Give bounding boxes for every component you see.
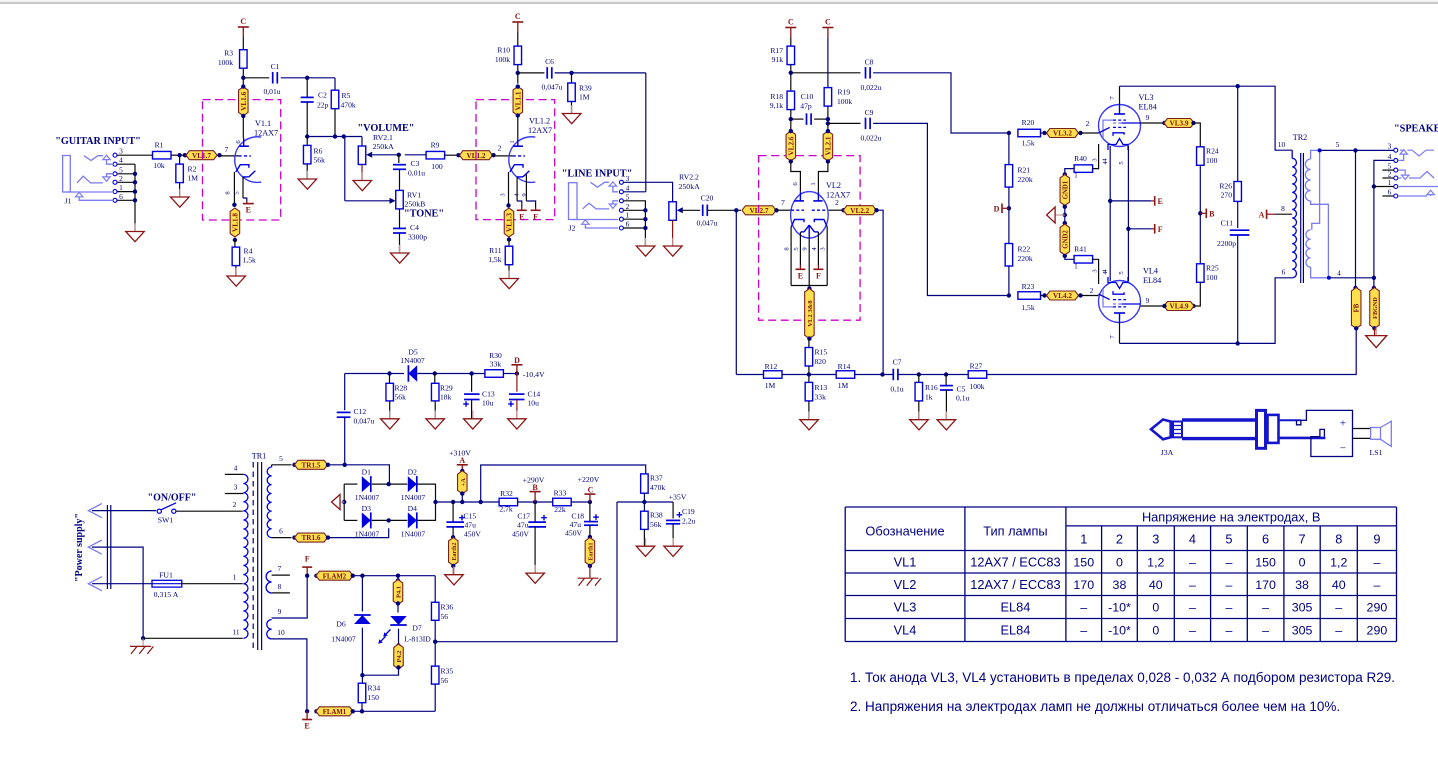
svg-text:7: 7 <box>1298 532 1305 547</box>
TR2 core <box>1300 153 1302 283</box>
svg-text:6: 6 <box>119 192 123 201</box>
svg-text:0,022u: 0,022u <box>861 83 882 92</box>
resistor R14 <box>804 374 836 376</box>
svg-text:10: 10 <box>277 628 285 637</box>
resistor R36 <box>434 576 436 603</box>
svg-text:6: 6 <box>1388 188 1392 197</box>
svg-text:R35: R35 <box>441 667 454 676</box>
ground of C17 <box>534 527 536 573</box>
wire P4.2 to R34 node <box>362 668 398 676</box>
resistor R17 <box>790 37 792 46</box>
svg-text:100: 100 <box>1206 273 1218 282</box>
svg-text:B: B <box>1209 209 1215 218</box>
svg-text:−: − <box>1340 443 1346 455</box>
svg-text:0,022u: 0,022u <box>861 134 882 143</box>
heater wires to E F of VL1.2 <box>516 177 518 201</box>
svg-text:–: – <box>1189 601 1196 615</box>
wire VL2.7 node down to R12 <box>735 210 737 374</box>
connector J3A second collar <box>1268 415 1279 443</box>
net label FLAM1 <box>305 709 309 713</box>
potentiometer RV1 TONE <box>396 190 404 209</box>
svg-text:TR2: TR2 <box>1293 133 1308 142</box>
power E below V1.1 <box>246 202 248 204</box>
svg-text:38: 38 <box>1295 578 1309 592</box>
svg-text:1N4007: 1N4007 <box>401 530 426 539</box>
svg-text:R5: R5 <box>342 91 351 100</box>
resistor R4 <box>234 240 236 247</box>
wires labels to VL2 anodes <box>791 162 801 192</box>
svg-text:1M: 1M <box>838 381 849 390</box>
svg-text:F: F <box>816 271 821 280</box>
J1 pin circles and numbers <box>113 153 117 157</box>
svg-text:7: 7 <box>225 145 229 154</box>
svg-text:0: 0 <box>1152 624 1159 638</box>
wire bridge AC1 from TR1.5 node <box>345 465 390 484</box>
svg-text:TR1.5: TR1.5 <box>302 461 321 469</box>
svg-text:0: 0 <box>1116 555 1123 569</box>
wire C7 to R16 C5 R27 <box>898 374 968 376</box>
svg-text:VL1.6: VL1.6 <box>240 91 248 110</box>
ground of R29 <box>434 401 436 419</box>
svg-text:1,5k: 1,5k <box>243 256 256 265</box>
svg-text:8: 8 <box>225 191 232 195</box>
svg-text:47u: 47u <box>465 521 477 530</box>
svg-text:FB: FB <box>1354 303 1361 312</box>
magenta box around VL2 <box>759 156 861 321</box>
wire R40 right to VL3 pin3 <box>1093 144 1099 169</box>
resistor R21 <box>1008 133 1010 165</box>
svg-text:450V: 450V <box>512 530 529 539</box>
wire C12 top row <box>345 373 390 375</box>
net label TR1.6 <box>295 533 328 542</box>
svg-text:VL1: VL1 <box>894 554 917 569</box>
page arrow at GND node <box>1064 207 1066 223</box>
svg-text:VL1.1: VL1.1 <box>514 91 522 110</box>
svg-text:9: 9 <box>278 607 282 616</box>
wire R19 bottom to C9 row <box>827 106 829 131</box>
capacitor C15 electrolytic <box>452 502 454 522</box>
resistor R35 <box>431 666 439 684</box>
resistor R10 <box>517 32 519 46</box>
svg-text:100k: 100k <box>969 382 984 391</box>
svg-text:1: 1 <box>233 573 237 582</box>
svg-text:–: – <box>1373 555 1380 569</box>
+35V node <box>643 493 645 511</box>
TR1 secondary winding 9-10 <box>267 620 272 639</box>
power E at EL84s <box>1110 200 1151 202</box>
net label VL4.2 <box>1041 295 1045 297</box>
resistor R1 <box>153 151 172 159</box>
net label GND1 <box>1060 175 1070 206</box>
svg-text:1,2: 1,2 <box>1147 555 1164 569</box>
connector J2 ring contact <box>583 203 609 209</box>
svg-text:5: 5 <box>626 192 630 201</box>
svg-text:305: 305 <box>1292 601 1313 615</box>
svg-text:VL2: VL2 <box>894 577 917 592</box>
power E below VL2 <box>799 265 801 269</box>
wire tap 11 <box>143 637 243 639</box>
power B <box>1200 212 1206 214</box>
svg-text:12AX7 / ECC83: 12AX7 / ECC83 <box>970 554 1060 569</box>
svg-text:2. Напряжения на электродах ла: 2. Напряжения на электродах ламп не долж… <box>850 699 1340 714</box>
output pin5 pin2 pin6 stubs <box>1382 169 1393 171</box>
svg-text:D7: D7 <box>412 624 421 633</box>
ground of R16 <box>918 401 920 420</box>
wire output pin4 pin1 to FBGND <box>1374 160 1394 288</box>
svg-text:3: 3 <box>626 174 630 183</box>
svg-text:R38: R38 <box>650 511 663 520</box>
svg-text:220k: 220k <box>1018 254 1033 263</box>
svg-text:18k: 18k <box>440 393 452 402</box>
svg-text:A: A <box>459 456 465 465</box>
svg-text:1M: 1M <box>765 381 776 390</box>
svg-text:1,5k: 1,5k <box>1021 139 1034 148</box>
connector J3A contacts <box>1279 419 1301 421</box>
svg-text:33k: 33k <box>490 360 502 369</box>
svg-text:VL2.1: VL2.1 <box>824 136 832 155</box>
net label FLAM2 <box>314 574 318 578</box>
svg-text:–: – <box>1335 601 1342 615</box>
resistor R34 <box>361 675 363 683</box>
svg-text:EL84: EL84 <box>1143 276 1161 285</box>
svg-text:47p: 47p <box>800 102 812 111</box>
TR2 primary winding <box>1291 150 1293 158</box>
svg-text:0,01u: 0,01u <box>408 169 425 178</box>
wire VL4 plate to bottom rail <box>1119 323 1121 344</box>
svg-text:1: 1 <box>626 211 630 220</box>
svg-text:2: 2 <box>498 144 502 153</box>
svg-text:2: 2 <box>835 198 839 207</box>
ground of R2 <box>179 183 181 197</box>
diode D3 <box>344 519 357 521</box>
svg-text:91k: 91k <box>772 55 784 64</box>
resistor R23 <box>1007 293 1011 297</box>
wire VL4.9 to VL4 pin9 <box>1141 305 1165 307</box>
wire mains neutral down to tap 11 <box>92 547 143 638</box>
svg-text:C: C <box>240 17 246 26</box>
svg-text:Обозначение: Обозначение <box>865 524 944 539</box>
svg-text:R3: R3 <box>224 49 233 58</box>
svg-text:3: 3 <box>1092 158 1099 162</box>
svg-text:R18: R18 <box>770 92 783 101</box>
resistor R6 <box>306 137 308 146</box>
svg-text:40: 40 <box>1149 578 1163 592</box>
svg-text:3: 3 <box>1152 532 1159 547</box>
svg-text:3300p: 3300p <box>408 233 427 242</box>
resistor R18 <box>787 91 795 110</box>
svg-text:47u: 47u <box>517 521 529 530</box>
ground of J1 <box>134 229 136 232</box>
capacitor C18 electrolytic <box>589 502 591 521</box>
svg-text:C14: C14 <box>528 390 541 399</box>
speaker LS1 <box>1353 428 1371 430</box>
svg-text:C10: C10 <box>801 92 814 101</box>
svg-text:3: 3 <box>1092 269 1099 273</box>
svg-text:9,1k: 9,1k <box>770 101 783 110</box>
svg-text:56k: 56k <box>650 520 662 529</box>
svg-text:E: E <box>246 206 251 215</box>
wire fuse to TR1 tap 1 <box>182 583 243 585</box>
wire to C13 and R30 <box>435 373 485 375</box>
power E below FLAM1 <box>306 711 308 719</box>
svg-text:3: 3 <box>119 147 123 156</box>
connector J3A big collar <box>1257 410 1266 448</box>
svg-text:–: – <box>1373 578 1380 592</box>
svg-text:FLAM1: FLAM1 <box>323 709 347 716</box>
svg-text:C: C <box>788 18 794 27</box>
svg-text:C7: C7 <box>893 358 902 367</box>
ground of RV2.2 <box>672 220 674 246</box>
ground of C5 <box>945 390 947 412</box>
power D at -10.4V <box>503 373 517 375</box>
svg-text:E: E <box>798 271 803 280</box>
capacitor C11 <box>1230 229 1250 231</box>
svg-text:"Power supply": "Power supply" <box>74 513 85 582</box>
svg-text:100: 100 <box>431 162 443 171</box>
svg-text:40: 40 <box>1332 578 1346 592</box>
svg-text:VL1.2: VL1.2 <box>529 117 550 126</box>
TR2 secondary winding upper <box>1311 150 1320 159</box>
TR1 secondary winding 5-6 <box>271 465 273 467</box>
svg-text:450V: 450V <box>565 529 582 538</box>
svg-text:9: 9 <box>1146 296 1150 305</box>
svg-text:6: 6 <box>279 527 283 536</box>
svg-text:56k: 56k <box>314 156 326 165</box>
output jack tip contact <box>1400 149 1404 151</box>
svg-text:C20: C20 <box>701 194 714 203</box>
svg-text:1k: 1k <box>925 393 933 402</box>
svg-text:5: 5 <box>279 454 283 463</box>
wire mains line to switch <box>92 510 156 512</box>
ground of FBGND <box>1374 328 1376 335</box>
capacitor C9 <box>865 118 867 129</box>
bridge left rail with page arrow <box>343 484 345 520</box>
chassis ground of Earth1 <box>589 566 591 578</box>
svg-text:R15: R15 <box>815 348 828 357</box>
fuse FU1 <box>92 583 152 585</box>
svg-text:VL1.3: VL1.3 <box>506 213 514 232</box>
svg-text:C4: C4 <box>410 223 419 232</box>
svg-text:+: + <box>1340 418 1346 430</box>
svg-text:+A: +A <box>460 478 467 487</box>
capacitor C3 <box>398 155 400 163</box>
svg-text:R6: R6 <box>314 147 323 156</box>
wire A rail to R37 <box>481 465 646 502</box>
VL2 heater wires to E F <box>799 232 801 265</box>
svg-text:D6: D6 <box>336 620 345 629</box>
svg-text:–: – <box>1225 578 1232 592</box>
output jack pin circles and numbers <box>1394 148 1398 152</box>
svg-text:2200p: 2200p <box>1217 239 1236 248</box>
svg-text:12AX7: 12AX7 <box>254 129 278 138</box>
svg-text:11: 11 <box>232 628 239 637</box>
power F below VL1.2 <box>535 208 537 211</box>
wire D2 to output node <box>417 484 435 502</box>
svg-text:1,5k: 1,5k <box>1021 303 1034 312</box>
wire speaker net down to FB <box>1355 150 1357 288</box>
svg-text:-10*: -10* <box>1108 601 1131 615</box>
wire R40 left to GND1 <box>1065 169 1074 175</box>
wire C9 to R23 node <box>873 123 1009 295</box>
svg-text:R36: R36 <box>441 603 454 612</box>
svg-text:C8: C8 <box>865 58 874 67</box>
capacitor C1 <box>272 72 274 84</box>
svg-text:"GUITAR INPUT": "GUITAR INPUT" <box>55 136 141 147</box>
svg-text:305: 305 <box>1292 624 1313 638</box>
svg-text:P4.2: P4.2 <box>396 651 403 663</box>
net label Earth2 <box>451 535 455 539</box>
diode D1 <box>344 483 357 485</box>
ground of R38 <box>643 529 645 546</box>
svg-text:R19: R19 <box>838 88 851 97</box>
resistor R37 <box>641 474 649 493</box>
wire VL3 pin9 to VL3.9 <box>1141 122 1165 124</box>
wire FLAM2 row <box>353 575 435 577</box>
svg-text:Тип лампы: Тип лампы <box>983 524 1047 539</box>
wire TR1.5 to C12 and bridge <box>328 464 345 466</box>
svg-text:+220V: +220V <box>578 475 600 484</box>
capacitor C2 <box>306 78 308 98</box>
svg-text:VL3: VL3 <box>1139 93 1154 102</box>
connector J2 sleeve <box>573 219 618 221</box>
triode VL1.2 12AX7 <box>509 137 535 183</box>
svg-text:VL1.8: VL1.8 <box>231 213 239 232</box>
resistor R13 <box>805 382 813 401</box>
wire R25 to VL4.9 <box>1194 282 1201 306</box>
svg-text:33k: 33k <box>815 393 827 402</box>
wire C1 to C2/R5 node <box>281 77 335 79</box>
svg-text:RV2.2: RV2.2 <box>679 173 699 182</box>
svg-text:EL84: EL84 <box>1000 623 1030 638</box>
heater wire to E <box>242 177 244 198</box>
svg-text:6: 6 <box>626 220 630 229</box>
svg-text:7: 7 <box>781 198 785 207</box>
resistor R12 <box>764 371 783 379</box>
resistor R22 <box>1005 244 1013 267</box>
connector J1 body <box>63 156 71 193</box>
svg-text:LS1: LS1 <box>1370 448 1383 457</box>
diode D4 <box>408 512 417 528</box>
svg-text:1N4007: 1N4007 <box>400 356 425 365</box>
svg-text:VL3: VL3 <box>894 600 917 615</box>
wire J1 pin3 to R1 <box>117 154 153 156</box>
svg-text:RV1: RV1 <box>407 191 421 200</box>
resistor R33 <box>553 498 572 506</box>
svg-text:C: C <box>825 18 831 27</box>
svg-text:–: – <box>1189 555 1196 569</box>
svg-text:0,1u: 0,1u <box>956 394 969 403</box>
TR2 secondary winding lower <box>1306 230 1311 267</box>
svg-text:0,047u: 0,047u <box>354 417 375 426</box>
svg-text:B: B <box>532 483 538 492</box>
wire R1 to VL1.7 <box>171 154 185 156</box>
net label VL2.6 <box>786 131 796 161</box>
ground of C14 <box>516 411 518 419</box>
wire R24 to B node <box>1199 165 1201 263</box>
diode D5 <box>387 371 391 375</box>
svg-text:R12: R12 <box>765 362 778 371</box>
capacitor C19 <box>672 502 674 519</box>
svg-text:D4: D4 <box>408 504 417 513</box>
wire R33 to C node <box>571 501 590 503</box>
svg-text:1: 1 <box>509 140 516 143</box>
svg-text:R9: R9 <box>431 141 440 150</box>
resistor R25 <box>1197 264 1205 283</box>
wire VL3 plate to top rail <box>1119 86 1121 104</box>
svg-text:1: 1 <box>1080 532 1087 547</box>
wiper node to R9 / C3 <box>397 153 401 157</box>
connector J3A barrel <box>1182 418 1256 421</box>
svg-text:4: 4 <box>1388 152 1392 161</box>
net label VL2 3&8 <box>807 286 811 290</box>
connector J1 tip contact <box>84 156 103 161</box>
svg-text:–: – <box>1225 555 1232 569</box>
ground of RV2.1 <box>361 165 363 181</box>
svg-text:4: 4 <box>811 247 818 251</box>
svg-text:D3: D3 <box>362 504 371 513</box>
resistor R2 <box>179 155 181 164</box>
svg-text:150: 150 <box>368 693 380 702</box>
svg-text:F: F <box>1158 225 1163 234</box>
TR1 tap 9 wire to FLAM2 net <box>272 576 308 618</box>
svg-text:VL3.2: VL3.2 <box>1053 130 1072 138</box>
power F below VL2 <box>817 265 819 269</box>
capacitor C12 <box>344 374 346 411</box>
connector J3A collar <box>1173 422 1182 438</box>
connector J2 body <box>569 183 578 220</box>
svg-text:R26: R26 <box>1219 182 1232 191</box>
svg-text:2: 2 <box>1086 119 1090 128</box>
LED arrows of D7 <box>385 630 391 636</box>
output jack sleeve contact <box>1398 186 1438 188</box>
svg-text:A: A <box>1259 211 1265 220</box>
capacitor C4 <box>399 209 401 229</box>
svg-text:6: 6 <box>1262 532 1269 547</box>
svg-text:1M: 1M <box>579 93 590 102</box>
svg-text:R41: R41 <box>1074 245 1087 254</box>
svg-text:+35V: +35V <box>669 493 687 502</box>
net label VL1.8 <box>230 208 240 237</box>
wire R27 to FB net <box>987 328 1356 375</box>
wire C11 to bottom rail <box>1237 235 1239 343</box>
net label VL1.2 <box>456 153 460 157</box>
wire +35V feed to LED node <box>435 502 617 642</box>
net label FB <box>1353 286 1357 290</box>
chassis ground at mains <box>142 638 144 646</box>
svg-text:VL2: VL2 <box>826 181 841 190</box>
capacitor C10 <box>806 113 808 125</box>
top rail to TR2 pin 10 <box>1120 86 1293 150</box>
svg-text:250kA: 250kA <box>373 142 395 151</box>
svg-text:FU1: FU1 <box>159 571 173 580</box>
svg-text:R24: R24 <box>1206 147 1219 156</box>
svg-text:8: 8 <box>278 582 282 591</box>
svg-text:3: 3 <box>234 483 238 492</box>
wire C8 to R20 node <box>873 73 1009 133</box>
dual triode VL2 12AX7 <box>791 192 829 238</box>
svg-text:4: 4 <box>119 156 123 165</box>
svg-text:5: 5 <box>1336 140 1340 149</box>
svg-text:EL84: EL84 <box>1139 103 1157 112</box>
svg-text:250kA: 250kA <box>679 182 701 191</box>
capacitor C8 <box>865 67 867 79</box>
svg-text:C13: C13 <box>482 390 495 399</box>
svg-text:C19: C19 <box>682 507 695 516</box>
svg-text:Напряжение на электродах, В: Напряжение на электродах, В <box>1142 510 1321 525</box>
wire R17 to R18 and C8 <box>790 65 792 92</box>
svg-text:1: 1 <box>1074 264 1077 271</box>
svg-text:1: 1 <box>1388 178 1392 187</box>
